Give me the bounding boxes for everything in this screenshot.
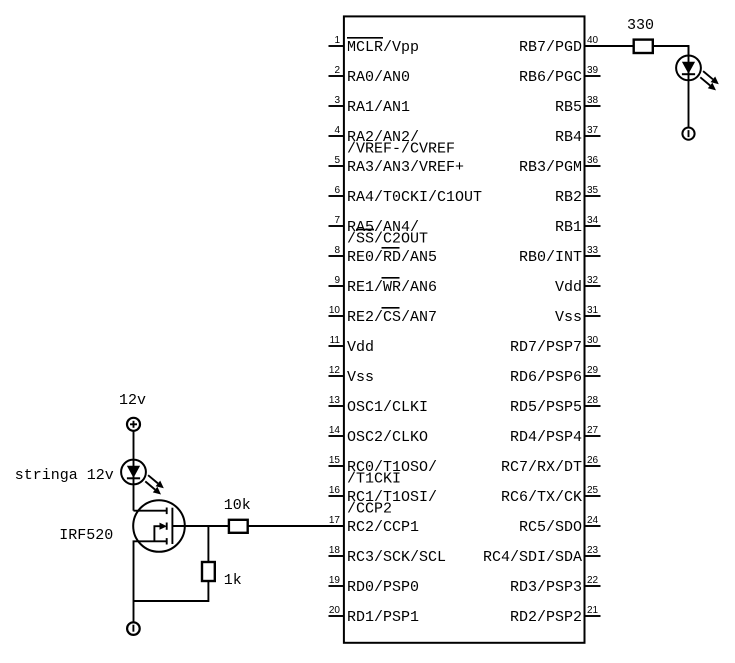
pin 11 Vdd	[329, 335, 375, 356]
svg-text:RD1/PSP1: RD1/PSP1	[347, 609, 419, 626]
svg-text:RA0/AN0: RA0/AN0	[347, 69, 410, 86]
svg-text:33: 33	[587, 245, 599, 256]
resistor R1 330	[634, 40, 653, 53]
svg-text:MCLR/Vpp: MCLR/Vpp	[347, 39, 419, 56]
Q1 drain lead	[134, 510, 167, 512]
LED D1	[676, 56, 719, 91]
pin 35 RB2	[555, 185, 601, 206]
svg-text:Vdd: Vdd	[555, 279, 582, 296]
svg-text:/SS/C2OUT: /SS/C2OUT	[347, 231, 428, 248]
svg-text:RD5/PSP5: RD5/PSP5	[510, 399, 582, 416]
svg-text:7: 7	[334, 215, 340, 226]
pin 28 RD5/PSP5	[510, 395, 601, 416]
svg-text:35: 35	[587, 185, 599, 196]
svg-text:14: 14	[329, 425, 341, 436]
pin 29 RD6/PSP6	[510, 365, 601, 386]
svg-text:/CCP2: /CCP2	[347, 501, 392, 518]
svg-text:RA3/AN3/VREF+: RA3/AN3/VREF+	[347, 159, 464, 176]
svg-text:RB2: RB2	[555, 189, 582, 206]
pin 38 RB5	[555, 95, 601, 116]
svg-text:3: 3	[334, 95, 340, 106]
wire R2 to pin 17	[248, 525, 344, 527]
pin 16 RC1/T1OSI/	[329, 485, 438, 518]
svg-text:/VREF-/CVREF: /VREF-/CVREF	[347, 141, 455, 158]
wire power to LED D2	[133, 431, 135, 460]
svg-text:22: 22	[587, 575, 599, 586]
svg-text:23: 23	[587, 545, 599, 556]
svg-text:RC4/SDI/SDA: RC4/SDI/SDA	[483, 549, 582, 566]
svg-text:10: 10	[329, 305, 341, 316]
svg-text:11: 11	[330, 335, 341, 346]
svg-text:RC5/SDO: RC5/SDO	[519, 519, 582, 536]
pin 14 OSC2/CLKO	[329, 425, 429, 446]
pin 20 RD1/PSP1	[329, 605, 420, 626]
svg-text:40: 40	[587, 35, 599, 46]
pin 6 RA4/T0CKI/C1OUT	[329, 185, 483, 206]
wire Q1 gate to resistor R2	[172, 525, 229, 527]
wire R1 to LED D1	[653, 46, 689, 55]
svg-text:IRF520: IRF520	[59, 527, 113, 544]
pin 10 RE2/CS/AN7	[329, 305, 438, 326]
svg-text:17: 17	[329, 515, 341, 526]
pin 7 RA5/AN4/	[329, 215, 429, 248]
svg-text:4: 4	[334, 125, 340, 136]
svg-text:OSC1/CLKI: OSC1/CLKI	[347, 399, 428, 416]
svg-text:1: 1	[334, 35, 340, 46]
pin 19 RD0/PSP0	[329, 575, 420, 596]
svg-text:10k: 10k	[224, 497, 251, 514]
ground G1	[682, 128, 694, 140]
Q1 channel middle dash	[166, 523, 168, 530]
svg-text:5: 5	[334, 155, 340, 166]
svg-text:stringa 12v: stringa 12v	[15, 467, 114, 484]
pin 34 RB1	[555, 215, 601, 236]
svg-text:RD6/PSP6: RD6/PSP6	[510, 369, 582, 386]
ground G2	[127, 622, 140, 635]
pin 2 RA0/AN0	[329, 65, 411, 86]
wire source to ground G2	[133, 601, 135, 622]
svg-text:/T1CKI: /T1CKI	[347, 471, 401, 488]
svg-text:20: 20	[329, 605, 341, 616]
svg-text:RD0/PSP0: RD0/PSP0	[347, 579, 419, 596]
pin 31 Vss	[555, 305, 601, 326]
pin 23 RC4/SDI/SDA	[483, 545, 601, 566]
svg-text:OSC2/CLKO: OSC2/CLKO	[347, 429, 428, 446]
svg-text:28: 28	[587, 395, 599, 406]
svg-text:21: 21	[587, 605, 599, 616]
svg-text:29: 29	[587, 365, 599, 376]
svg-text:26: 26	[587, 455, 599, 466]
pin 27 RD4/PSP4	[510, 425, 601, 446]
Q1 source lead	[134, 541, 167, 601]
pin 5 RA3/AN3/VREF+	[329, 155, 465, 176]
svg-text:27: 27	[587, 425, 599, 436]
pin 33 RB0/INT	[519, 245, 601, 266]
pin 8 RE0/RD/AN5	[329, 245, 438, 266]
svg-text:18: 18	[329, 545, 341, 556]
wire through LED D2 to MOSFET drain	[133, 460, 135, 511]
pin 40 RB7/PGD	[519, 35, 599, 56]
svg-text:RC7/RX/DT: RC7/RX/DT	[501, 459, 582, 476]
wire pin40 to resistor R1	[585, 45, 634, 47]
svg-text:13: 13	[329, 395, 341, 406]
svg-text:RC3/SCK/SCL: RC3/SCK/SCL	[347, 549, 446, 566]
svg-text:25: 25	[587, 485, 599, 496]
Q1 drain contact dash	[166, 508, 168, 515]
svg-text:8: 8	[334, 245, 340, 256]
pin 17 RC2/CCP1	[329, 515, 419, 536]
svg-text:RE1/WR/AN6: RE1/WR/AN6	[347, 279, 437, 296]
svg-text:37: 37	[587, 125, 599, 136]
svg-text:38: 38	[587, 95, 599, 106]
pin 36 RB3/PGM	[519, 155, 601, 176]
svg-text:6: 6	[334, 185, 340, 196]
pin 30 RD7/PSP7	[510, 335, 601, 356]
svg-text:RA4/T0CKI/C1OUT: RA4/T0CKI/C1OUT	[347, 189, 482, 206]
svg-text:16: 16	[329, 485, 341, 496]
svg-text:RC2/CCP1: RC2/CCP1	[347, 519, 419, 536]
svg-text:31: 31	[587, 305, 599, 316]
pin 13 OSC1/CLKI	[329, 395, 429, 416]
svg-text:RB3/PGM: RB3/PGM	[519, 159, 582, 176]
svg-text:RB5: RB5	[555, 99, 582, 116]
svg-text:12: 12	[329, 365, 341, 376]
svg-text:1k: 1k	[224, 572, 242, 589]
pin 12 Vss	[329, 365, 375, 386]
pin 15 RC0/T1OSO/	[329, 455, 438, 488]
svg-text:RB7/PGD: RB7/PGD	[519, 39, 582, 56]
svg-text:RB0/INT: RB0/INT	[519, 249, 582, 266]
svg-text:15: 15	[329, 455, 341, 466]
svg-text:RB6/PGC: RB6/PGC	[519, 69, 582, 86]
Q1 bulk connection with arrow	[154, 526, 160, 541]
Q1 source contact dash	[166, 538, 168, 544]
resistor R3 1k	[202, 562, 215, 581]
pin 25 RC6/TX/CK	[501, 485, 601, 506]
svg-text:12v: 12v	[119, 392, 146, 409]
svg-text:RD4/PSP4: RD4/PSP4	[510, 429, 582, 446]
pin 26 RC7/RX/DT	[501, 455, 601, 476]
wire through LED to ground	[688, 46, 690, 127]
svg-text:RB4: RB4	[555, 129, 582, 146]
pin 24 RC5/SDO	[519, 515, 601, 536]
svg-text:9: 9	[334, 275, 340, 286]
pin 39 RB6/PGC	[519, 65, 601, 86]
svg-text:Vss: Vss	[555, 309, 582, 326]
LED D2	[121, 460, 164, 495]
svg-text:RE0/RD/AN5: RE0/RD/AN5	[347, 249, 437, 266]
pin 3 RA1/AN1	[329, 95, 411, 116]
svg-text:2: 2	[334, 65, 340, 76]
svg-text:30: 30	[587, 335, 599, 346]
transistor Q1 IRF520 body	[133, 500, 185, 552]
svg-text:34: 34	[587, 215, 599, 226]
pin 22 RD3/PSP3	[510, 575, 601, 596]
svg-text:RD7/PSP7: RD7/PSP7	[510, 339, 582, 356]
svg-text:Vdd: Vdd	[347, 339, 374, 356]
svg-text:RA1/AN1: RA1/AN1	[347, 99, 410, 116]
svg-text:RB1: RB1	[555, 219, 582, 236]
wire R3 to ground rail	[134, 581, 209, 601]
pin 32 Vdd	[555, 275, 601, 296]
svg-text:RC6/TX/CK: RC6/TX/CK	[501, 489, 582, 506]
pin 37 RB4	[555, 125, 601, 146]
svg-text:RE2/CS/AN7: RE2/CS/AN7	[347, 309, 437, 326]
svg-text:19: 19	[329, 575, 341, 586]
resistor R2 10k	[229, 520, 248, 533]
pin 18 RC3/SCK/SCL	[329, 545, 447, 566]
Q1 gate bar	[171, 508, 173, 544]
svg-text:RD3/PSP3: RD3/PSP3	[510, 579, 582, 596]
IC U1 PIC16F877 body	[344, 16, 585, 642]
pin 21 RD2/PSP2	[510, 605, 601, 626]
svg-text:36: 36	[587, 155, 599, 166]
pin 1 MCLR/Vpp	[329, 35, 420, 56]
svg-text:330: 330	[627, 17, 654, 34]
svg-text:Vss: Vss	[347, 369, 374, 386]
svg-text:32: 32	[587, 275, 599, 286]
svg-text:39: 39	[587, 65, 599, 76]
pin 9 RE1/WR/AN6	[329, 275, 438, 296]
wire junction to resistor R3	[207, 526, 209, 562]
svg-text:RD2/PSP2: RD2/PSP2	[510, 609, 582, 626]
power +12v terminal P1	[127, 418, 140, 431]
svg-text:24: 24	[587, 515, 599, 526]
pin 4 RA2/AN2/	[329, 125, 456, 158]
